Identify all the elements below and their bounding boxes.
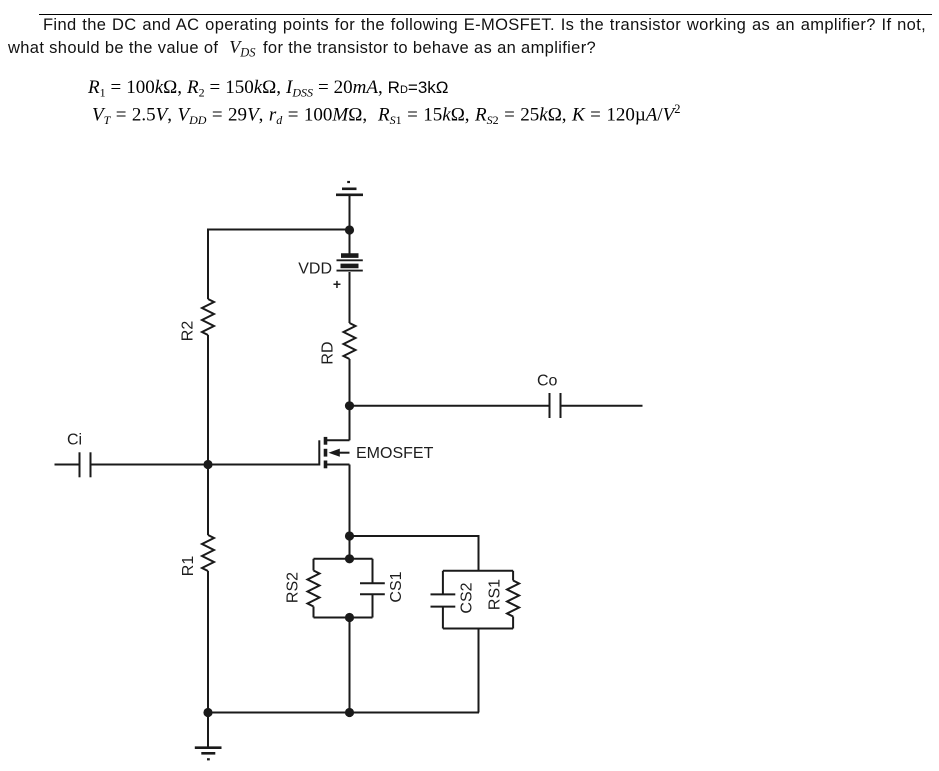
formula line 2 (92, 102, 681, 128)
wire bottom junction to ground rail (349, 618, 351, 713)
svg-text:Ci: Ci (67, 432, 82, 449)
capacitor CS2 (431, 571, 456, 629)
ground (top, above VDD) (336, 182, 363, 195)
resistor RS1 (507, 571, 519, 629)
wire RS2/CS1 top rail (314, 558, 373, 560)
wire ground rail (208, 712, 479, 714)
node source junction (345, 531, 354, 540)
wire R2 top to resistor (207, 229, 209, 300)
node ground junction (203, 708, 212, 717)
resistor R2 (202, 299, 214, 335)
wire R1 to ground node (207, 571, 209, 713)
wire R2 to gate node (207, 335, 209, 465)
wire CS2/RS1 to ground rail (478, 629, 480, 713)
question text line 2 (8, 37, 596, 61)
wire input stub (55, 464, 80, 466)
svg-text:CS1: CS1 (388, 571, 405, 602)
wire source to source node (349, 465, 351, 537)
body arrow (329, 449, 340, 457)
resistor RS2 (308, 559, 320, 618)
svg-text:R1: R1 (180, 556, 197, 577)
resistor R1 (202, 535, 214, 571)
wire battery to RD (349, 272, 351, 323)
ground (bottom) (195, 748, 222, 760)
wire gate node to R1 (207, 465, 209, 536)
svg-text:RD: RD (320, 341, 337, 364)
wire VDD node to R2 top (208, 229, 350, 231)
resistor RD (344, 323, 356, 359)
svg-text:RS2: RS2 (285, 572, 302, 603)
svg-text:Co: Co (537, 373, 558, 390)
capacitor Co (550, 393, 561, 418)
wire drain node to drain (349, 406, 351, 441)
source channel bar (324, 461, 328, 469)
svg-text:CS2: CS2 (459, 582, 476, 613)
formula line 1 (88, 77, 448, 101)
capacitor Ci (80, 452, 91, 477)
svg-text:+: + (333, 276, 341, 292)
wire CS2/RS1 top rail (443, 570, 513, 572)
svg-text:R2: R2 (180, 321, 197, 342)
wire Co to output (561, 405, 643, 407)
node RS2 CS1 bottom junction (345, 613, 354, 622)
question text line 1 (43, 16, 926, 35)
svg-text:VDD: VDD (298, 261, 332, 278)
battery VDD (337, 256, 363, 271)
body channel bar (324, 449, 328, 457)
node gate junction (203, 460, 212, 469)
wire gate node to gate (208, 464, 319, 466)
wire Ci to gate node (91, 464, 209, 466)
wire ground to node VDD (349, 196, 351, 254)
svg-text:RS1: RS1 (487, 579, 504, 610)
node ground rail junction (345, 708, 354, 717)
transistor Q1 EMOSFET (319, 406, 349, 469)
top rule (39, 14, 932, 15)
svg-text:EMOSFET: EMOSFET (356, 445, 434, 462)
wire source node to right branch (350, 536, 479, 571)
wire CS2/RS1 bottom rail (443, 628, 513, 630)
wire source node down (349, 536, 351, 559)
gate line (318, 440, 320, 465)
wire RS2/CS1 bottom rail (314, 617, 373, 619)
drain channel bar (324, 437, 328, 445)
source lead (326, 464, 350, 466)
capacitor CS1 (360, 559, 385, 618)
node RS2 CS1 top junction (345, 554, 354, 563)
node drain junction (345, 401, 354, 410)
wire to ground symbol (207, 713, 209, 748)
node VDD junction (345, 225, 354, 234)
wire RD to drain node (349, 359, 351, 406)
wire drain node to Co (350, 405, 550, 407)
